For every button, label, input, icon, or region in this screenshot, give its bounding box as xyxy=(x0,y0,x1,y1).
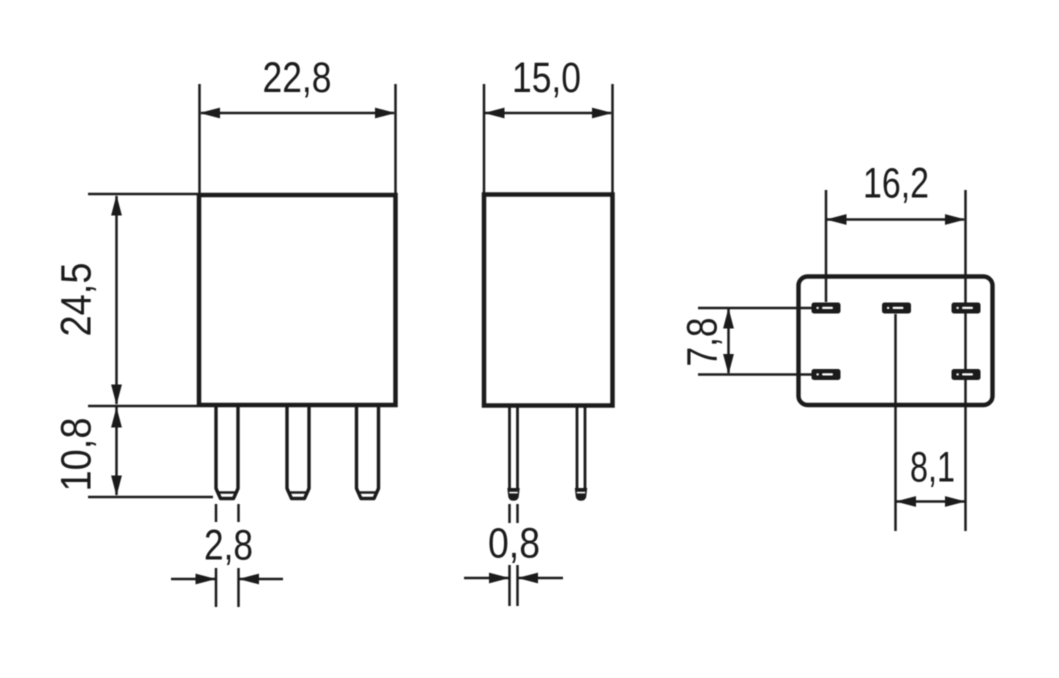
dimension 16,2 extension lines xyxy=(825,190,828,302)
pad top-left xyxy=(812,303,841,314)
dimension 8,1 extension line xyxy=(894,314,897,531)
pad slot marks xyxy=(822,307,833,309)
svg-text:8,1: 8,1 xyxy=(910,444,955,492)
dimension 15,0 line xyxy=(485,112,611,115)
side view body xyxy=(484,195,613,406)
svg-text:7,8: 7,8 xyxy=(679,318,727,367)
dimension 22,8 extension lines xyxy=(198,84,201,194)
side view right pin xyxy=(575,406,587,501)
dimension 10,8 extension line xyxy=(88,496,213,499)
arrow 0,8 right (points left) xyxy=(518,573,539,584)
arrowheads xyxy=(111,108,965,585)
arrow 2,8 left (points right) xyxy=(196,574,217,585)
bottom view body xyxy=(799,277,993,406)
arrow 2,8 right (points left) xyxy=(239,574,260,585)
svg-text:15,0: 15,0 xyxy=(512,54,581,102)
arrow 16,2 left xyxy=(826,214,847,225)
dimension 22,8 line xyxy=(201,112,394,115)
pad bottom-right xyxy=(952,369,981,380)
svg-text:22,8: 22,8 xyxy=(263,54,332,102)
arrow 15,0 left xyxy=(484,108,505,119)
dimension 0,8 extension lines xyxy=(508,504,511,523)
front view body xyxy=(199,195,396,405)
dimension 2,8 line xyxy=(171,578,216,581)
arrow 7,8 down xyxy=(723,354,734,375)
pad top-right xyxy=(952,303,981,314)
dimension 0,8 line xyxy=(464,577,510,580)
arrow 22,8 right xyxy=(375,108,396,119)
dimension 10,8 line xyxy=(115,407,118,495)
arrow 22,8 left xyxy=(200,108,221,119)
svg-text:10,8: 10,8 xyxy=(53,418,101,492)
pad bottom-left xyxy=(812,369,841,380)
pin 1 (front view left pin) xyxy=(216,405,238,499)
dimension 7,8 extension lines xyxy=(698,307,812,310)
dimension 8,1 line xyxy=(897,500,965,503)
svg-text:2,8: 2,8 xyxy=(204,522,253,570)
arrow 15,0 right xyxy=(592,108,613,119)
svg-text:24,5: 24,5 xyxy=(53,263,101,337)
arrow 10,8 down xyxy=(111,476,122,497)
dimension 24,5 extension lines xyxy=(88,193,197,196)
arrow 24,5 down xyxy=(111,385,122,406)
pin 3 (front view right pin) xyxy=(357,405,379,499)
pad top-middle xyxy=(882,303,911,314)
dimension 7,8 line xyxy=(727,309,730,373)
side view left pin xyxy=(507,406,519,501)
arrow 0,8 left (points right) xyxy=(489,573,510,584)
dimension 16,2 line xyxy=(827,218,964,221)
bottom view pads xyxy=(812,303,981,381)
svg-text:16,2: 16,2 xyxy=(863,160,929,208)
svg-text:0,8: 0,8 xyxy=(488,520,540,568)
dimension 15,0 extension lines xyxy=(483,84,486,193)
arrow 16,2 right xyxy=(945,214,966,225)
dimension 24,5 line xyxy=(115,196,118,404)
dimension 2,8 extension lines xyxy=(215,504,218,522)
pin 2 (front view middle pin) xyxy=(287,405,309,499)
arrow 8,1 right xyxy=(945,496,966,507)
arrow 7,8 up xyxy=(723,308,734,329)
arrow 10,8 up xyxy=(111,407,122,428)
arrow 24,5 up xyxy=(111,195,122,216)
arrow 8,1 left xyxy=(896,496,917,507)
